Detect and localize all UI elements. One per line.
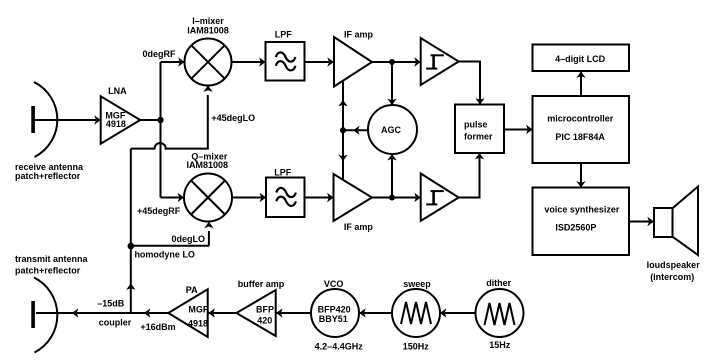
- svg-text:patch+reflector: patch+reflector: [15, 265, 81, 275]
- svg-text:BFP: BFP: [256, 305, 274, 315]
- svg-text:+45degRF: +45degRF: [137, 206, 181, 216]
- svg-text:AGC: AGC: [381, 125, 402, 135]
- svg-text:loudspeaker: loudspeaker: [647, 260, 701, 270]
- svg-text:BFP420: BFP420: [318, 305, 351, 315]
- svg-text:microcontroller: microcontroller: [547, 113, 614, 123]
- svg-text:4.2–4.4GHz: 4.2–4.4GHz: [315, 342, 364, 352]
- svg-text:I–mixer: I–mixer: [192, 16, 224, 26]
- svg-text:buffer amp: buffer amp: [238, 279, 285, 289]
- svg-text:voice synthesizer: voice synthesizer: [544, 205, 620, 215]
- svg-text:pulse: pulse: [464, 119, 488, 129]
- svg-text:15Hz: 15Hz: [489, 340, 511, 350]
- svg-text:transmit antenna: transmit antenna: [15, 254, 89, 264]
- svg-text:+45degLO: +45degLO: [211, 113, 255, 123]
- svg-text:BBY51: BBY51: [319, 314, 348, 324]
- svg-text:IAM81008: IAM81008: [187, 160, 229, 170]
- svg-text:coupler: coupler: [99, 318, 132, 328]
- svg-text:4918: 4918: [188, 319, 208, 329]
- svg-text:dither: dither: [486, 278, 511, 288]
- svg-text:VCO: VCO: [324, 279, 344, 289]
- svg-text:LPF: LPF: [275, 29, 293, 39]
- svg-text:former: former: [464, 131, 493, 141]
- svg-text:4918: 4918: [106, 119, 126, 129]
- svg-text:sweep: sweep: [403, 279, 431, 289]
- svg-text:PA: PA: [186, 285, 198, 295]
- svg-text:PIC 18F84A: PIC 18F84A: [555, 132, 605, 142]
- svg-text:(intercom): (intercom): [650, 272, 694, 282]
- svg-text:0degRF: 0degRF: [142, 49, 176, 59]
- svg-text:ISD2560P: ISD2560P: [555, 223, 596, 233]
- svg-text:IAM81008: IAM81008: [187, 26, 229, 36]
- svg-text:150Hz: 150Hz: [403, 342, 430, 352]
- svg-text:LPF: LPF: [274, 167, 292, 177]
- svg-text:+16dBm: +16dBm: [140, 322, 175, 332]
- svg-text:4–digit LCD: 4–digit LCD: [555, 54, 606, 64]
- svg-text:IF amp: IF amp: [344, 222, 374, 232]
- svg-text:IF amp: IF amp: [344, 30, 374, 40]
- svg-text:patch+reflector: patch+reflector: [15, 171, 81, 181]
- svg-text:LNA: LNA: [108, 86, 127, 96]
- svg-text:420: 420: [257, 316, 272, 326]
- svg-text:homodyne LO: homodyne LO: [134, 249, 195, 259]
- svg-text:–15dB: –15dB: [97, 298, 125, 308]
- svg-text:MGF: MGF: [188, 305, 208, 315]
- svg-text:0degLO: 0degLO: [172, 234, 206, 244]
